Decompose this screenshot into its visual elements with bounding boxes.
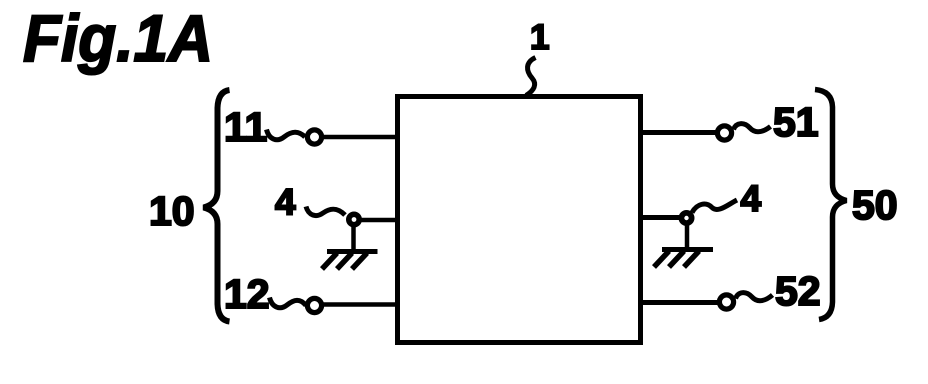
svg-text:1: 1 — [530, 18, 549, 57]
svg-text:4: 4 — [741, 178, 762, 219]
svg-text:52: 52 — [775, 268, 821, 314]
svg-text:Fig.1A: Fig.1A — [23, 1, 213, 75]
svg-text:4: 4 — [275, 182, 296, 223]
svg-text:50: 50 — [852, 182, 898, 228]
svg-text:51: 51 — [773, 99, 819, 145]
svg-text:10: 10 — [149, 188, 195, 234]
svg-text:11: 11 — [224, 104, 267, 150]
svg-text:12: 12 — [224, 271, 270, 317]
